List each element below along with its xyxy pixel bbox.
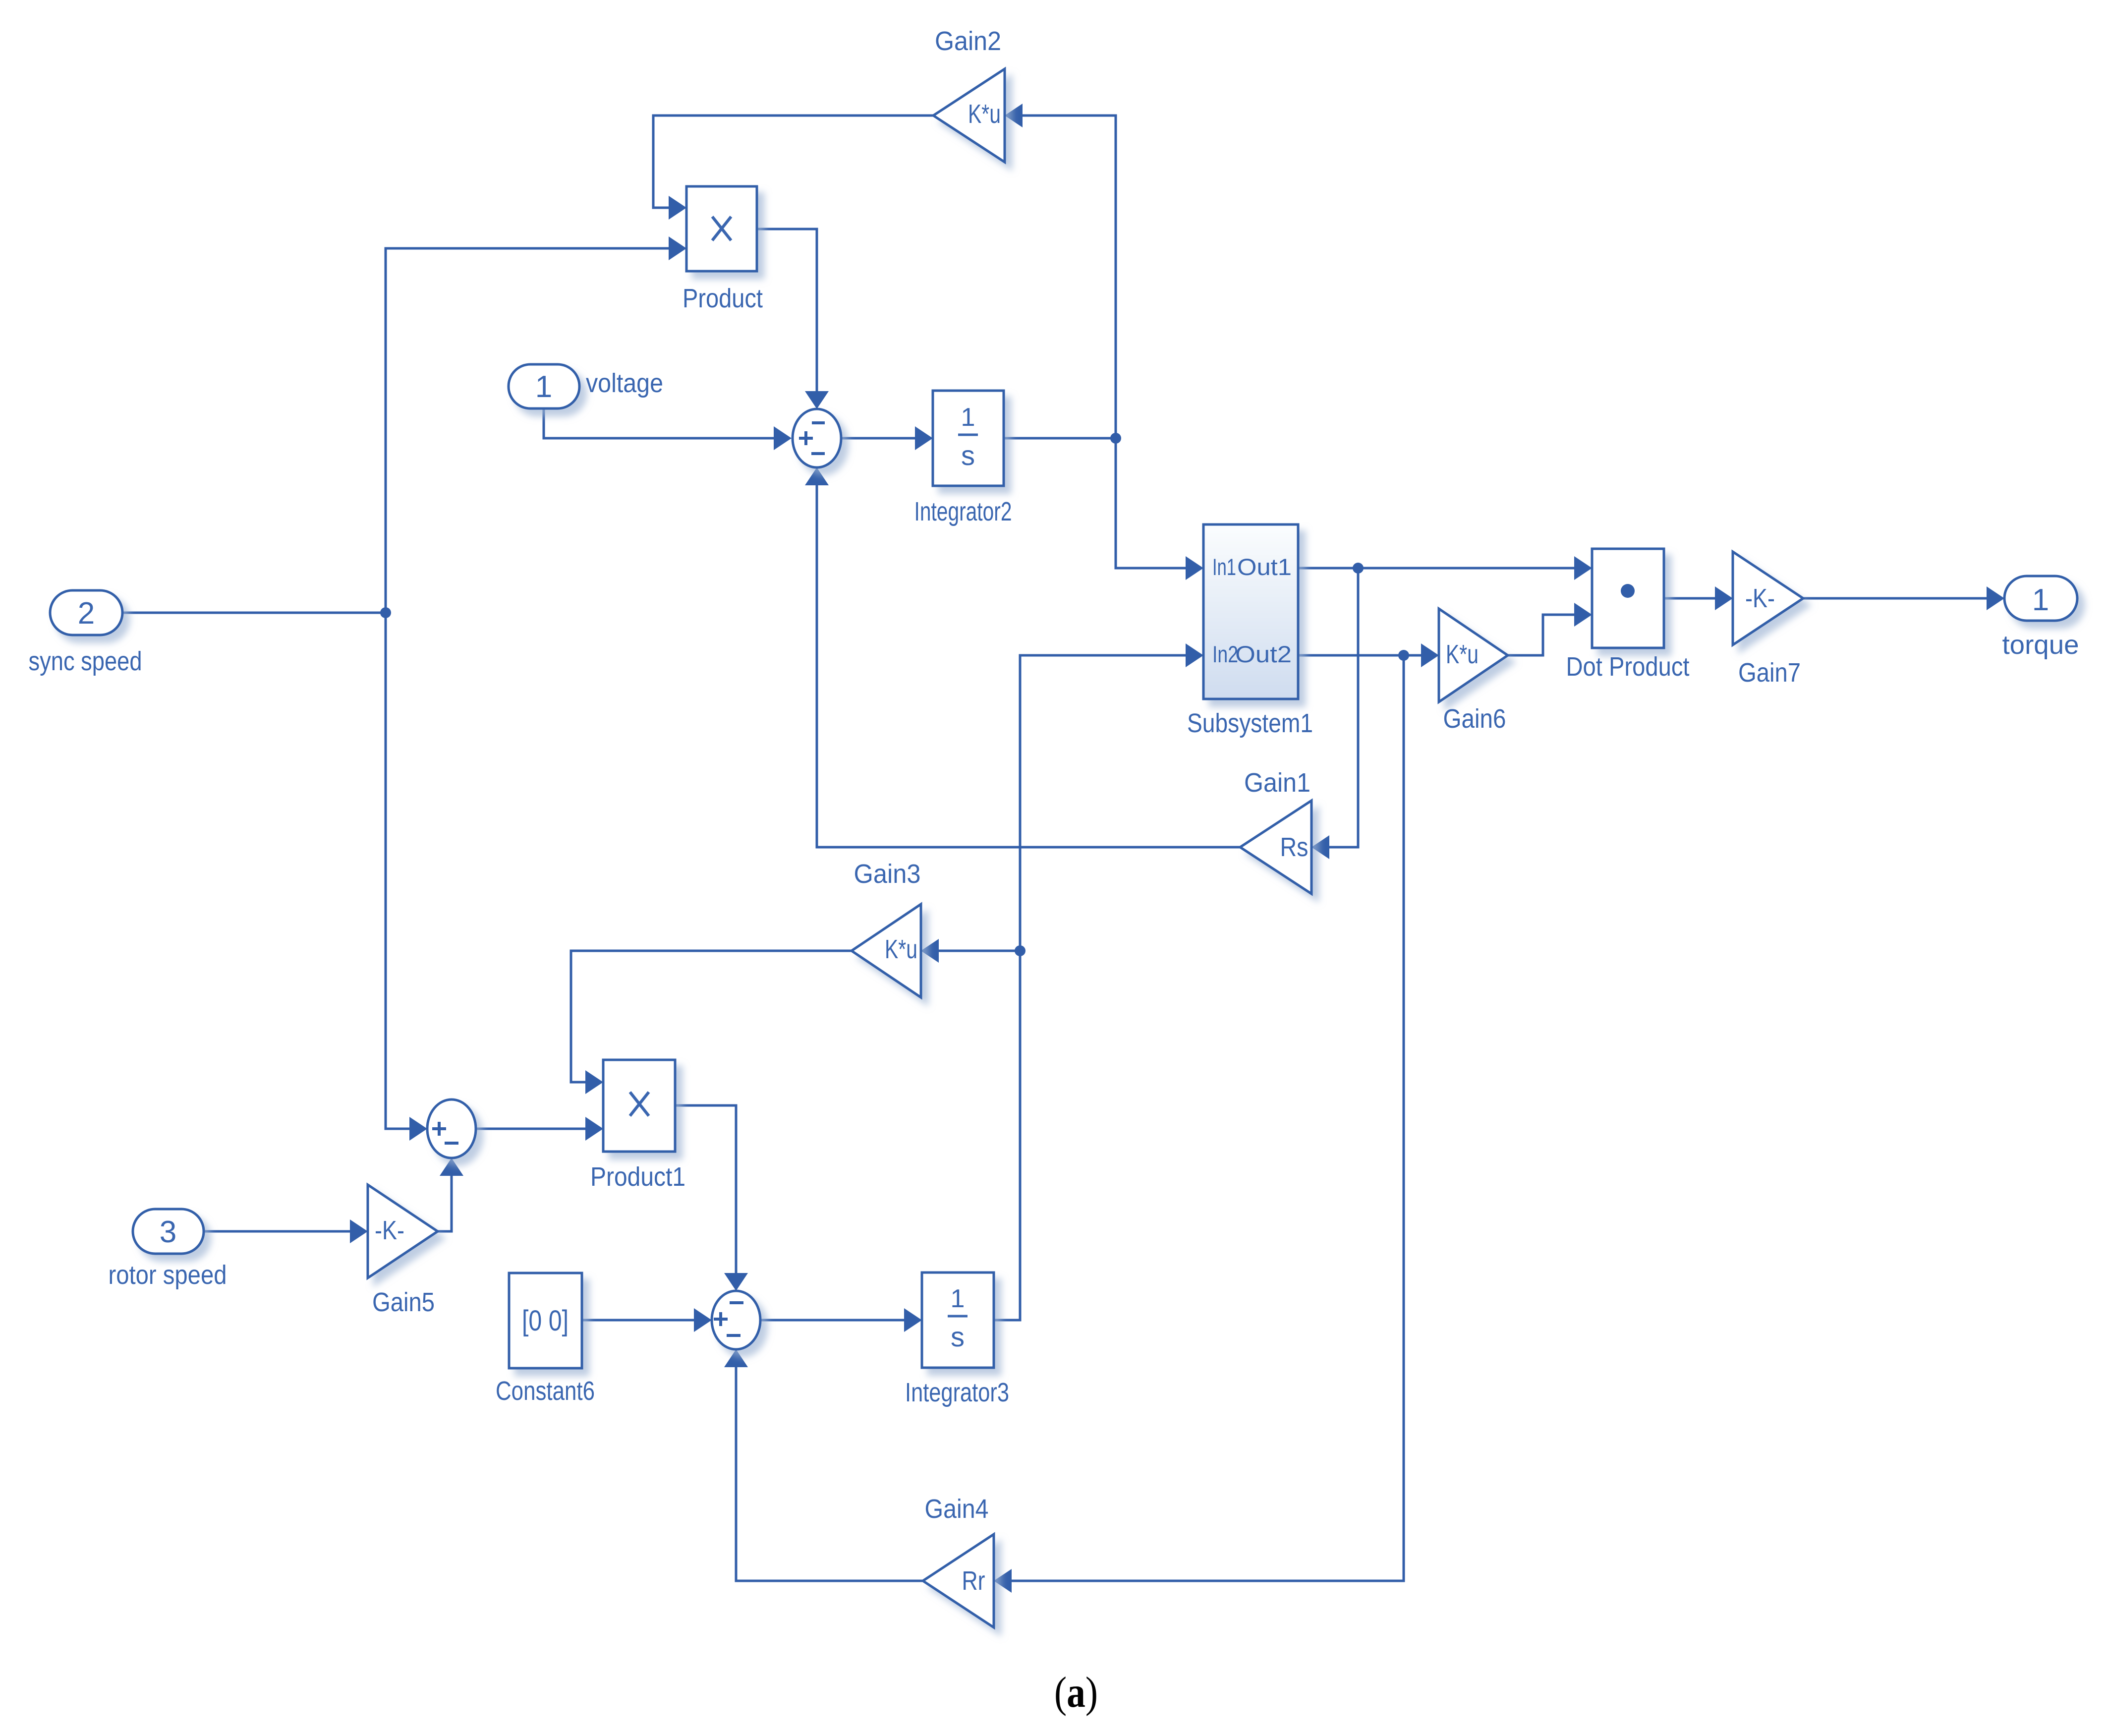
svg-text:voltage: voltage	[586, 368, 663, 398]
svg-text:Gain3: Gain3	[854, 859, 921, 889]
wire sync speed to node A	[122, 612, 386, 614]
svg-text:K*u: K*u	[968, 99, 1001, 129]
subsystem Subsystem1	[1187, 524, 1313, 738]
wire node B vertical	[1115, 116, 1117, 568]
arrow into Product input 1	[669, 196, 686, 220]
svg-text:Dot Product: Dot Product	[1566, 652, 1690, 682]
arrow into Gain6	[1421, 643, 1439, 667]
arrow into Sum3 top	[724, 1273, 748, 1291]
svg-text:Rs: Rs	[1280, 832, 1309, 862]
svg-text:sync speed: sync speed	[29, 646, 142, 676]
svg-text:Integrator2: Integrator2	[914, 497, 1012, 526]
svg-text:Gain2: Gain2	[935, 26, 1001, 56]
svg-text:1: 1	[2032, 583, 2049, 617]
svg-text:In1: In1	[1212, 554, 1236, 580]
wire Gain2 output to Product input 1	[653, 116, 933, 208]
wire node E to Gain3 input	[937, 950, 1020, 952]
svg-text:1: 1	[961, 403, 975, 432]
gain Gain3	[852, 859, 921, 997]
arrow into Gain5	[350, 1219, 368, 1243]
arrow into Sum2 bottom	[440, 1158, 463, 1176]
product block Product	[683, 186, 763, 313]
wire Gain6 output to Dot Product input 2	[1508, 615, 1576, 655]
gain Gain5	[368, 1185, 438, 1317]
wire Subsystem1 Out2 to Gain6	[1298, 654, 1423, 657]
sum block Sum1	[793, 409, 841, 467]
svg-text:Product: Product	[683, 284, 763, 313]
svg-text:Gain1: Gain1	[1244, 768, 1310, 798]
svg-text:Gain5: Gain5	[372, 1287, 435, 1317]
arrow into Gain3	[921, 939, 939, 963]
arrow into Sum2 left	[409, 1117, 427, 1141]
arrow into Gain2	[1005, 104, 1023, 127]
wire Sum3 output to Integrator3	[760, 1319, 906, 1322]
arrow into Sum3 bottom	[724, 1349, 748, 1367]
inport 2 sync speed	[29, 590, 142, 676]
svg-text:s: s	[951, 1321, 965, 1352]
svg-text:K*u: K*u	[1446, 639, 1479, 669]
svg-text:1: 1	[951, 1284, 965, 1313]
arrow into Gain4	[994, 1569, 1012, 1593]
svg-text:Gain4: Gain4	[925, 1494, 989, 1524]
svg-text:torque: torque	[2002, 630, 2079, 660]
wire Gain5 output to Sum2 bottom	[438, 1174, 452, 1231]
wire node A vertical branch	[385, 248, 387, 1129]
svg-text:K*u: K*u	[885, 934, 917, 964]
arrow into Sum3 left	[694, 1308, 712, 1332]
arrow into Dot Product input 2	[1574, 603, 1592, 627]
svg-text:1: 1	[535, 370, 552, 404]
gain Gain2	[933, 26, 1005, 162]
svg-text:Gain7: Gain7	[1738, 658, 1801, 688]
sum block Sum3	[712, 1291, 760, 1349]
outport 1 torque	[2002, 576, 2079, 660]
arrow into Subsystem1 In2	[1186, 643, 1203, 667]
arrow into Product input 2	[669, 236, 686, 260]
svg-text:Product1: Product1	[590, 1162, 685, 1192]
wire Product1 output to Sum3 top	[675, 1105, 736, 1274]
svg-text:In2: In2	[1212, 641, 1238, 667]
wire Gain3 output to Product1 input 1	[571, 951, 852, 1082]
integrator Integrator2	[914, 391, 1012, 526]
wire node D to Gain4 input	[1010, 655, 1404, 1581]
arrow into Integrator2	[915, 426, 933, 450]
svg-text:Out1: Out1	[1237, 554, 1292, 580]
sum block Sum2	[427, 1099, 476, 1158]
wire Product output to Sum1 top	[757, 229, 817, 393]
gain Gain6	[1439, 609, 1508, 734]
arrow into torque	[1987, 586, 2004, 610]
node B junction dot	[1110, 433, 1121, 444]
svg-text:rotor speed: rotor speed	[109, 1260, 227, 1290]
svg-text:s: s	[961, 440, 975, 471]
arrow into Sum1 left	[774, 426, 792, 450]
wire node C to Gain1 input	[1328, 568, 1358, 847]
svg-text:Integrator3: Integrator3	[905, 1378, 1009, 1407]
inport 3 rotor speed	[109, 1209, 227, 1290]
integrator Integrator3	[905, 1273, 1009, 1407]
wire Gain4 output to Sum3 bottom	[736, 1366, 923, 1581]
wire Constant6 output to Sum3	[582, 1319, 695, 1322]
svg-text:(a): (a)	[1054, 1669, 1098, 1717]
arrow into Product1 input 2	[585, 1117, 603, 1141]
arrow into Dot Product input 1	[1574, 556, 1592, 580]
arrow into Product1 input 1	[585, 1070, 603, 1094]
dot product block	[1566, 549, 1690, 682]
inport 1 voltage	[509, 364, 663, 408]
wire Gain1 output to Sum1 bottom	[817, 484, 1240, 847]
node C junction dot	[1353, 563, 1364, 574]
arrow into Gain7	[1715, 586, 1733, 610]
arrow into Subsystem1 In1	[1186, 556, 1203, 580]
gain Gain7	[1733, 552, 1803, 688]
svg-text:Constant6: Constant6	[496, 1376, 595, 1406]
arrow into Sum1 top	[805, 391, 829, 409]
svg-text:Rr: Rr	[962, 1566, 985, 1596]
node E junction dot	[1015, 945, 1025, 956]
gain Gain1 Rs	[1240, 768, 1311, 894]
wire node A to Product input 2	[386, 247, 670, 250]
wire Integrator2 output to node B	[1004, 437, 1116, 440]
wire voltage to Sum1	[544, 408, 775, 438]
wire Sum1 output to Integrator2	[841, 437, 916, 440]
node D junction dot	[1398, 650, 1409, 661]
svg-text:-K-: -K-	[375, 1215, 404, 1245]
svg-text:2: 2	[78, 596, 95, 631]
svg-text:3: 3	[160, 1215, 176, 1249]
gain Gain4 Rr	[923, 1494, 994, 1627]
svg-text:-K-: -K-	[1745, 583, 1775, 613]
wire rotor speed to Gain5	[204, 1230, 351, 1233]
arrow into Integrator3	[904, 1308, 922, 1332]
wire Integrator3 output to Subsystem1 In2	[994, 655, 1187, 1320]
wire node A to Sum2 input	[386, 1128, 411, 1130]
wire Sum2 output to Product1 input 2	[476, 1128, 587, 1130]
svg-text:[0 0]: [0 0]	[522, 1305, 569, 1337]
wire Gain2 input from node B vertical	[1021, 115, 1116, 117]
svg-text:Out2: Out2	[1235, 641, 1292, 667]
wire node B to Subsystem1 In1	[1116, 567, 1187, 570]
arrow into Sum1 bottom	[805, 467, 829, 485]
product block Product1	[590, 1060, 685, 1192]
wire Subsystem1 Out1 to Dot Product input 1	[1298, 567, 1576, 570]
node A junction dot	[380, 607, 391, 618]
constant Constant6	[496, 1273, 595, 1406]
wire Gain7 output to torque	[1803, 597, 1988, 600]
wire Dot Product output to Gain7	[1664, 597, 1716, 600]
svg-text:Subsystem1: Subsystem1	[1187, 708, 1313, 738]
arrow into Gain1	[1311, 835, 1329, 859]
svg-text:Gain6: Gain6	[1443, 704, 1506, 734]
